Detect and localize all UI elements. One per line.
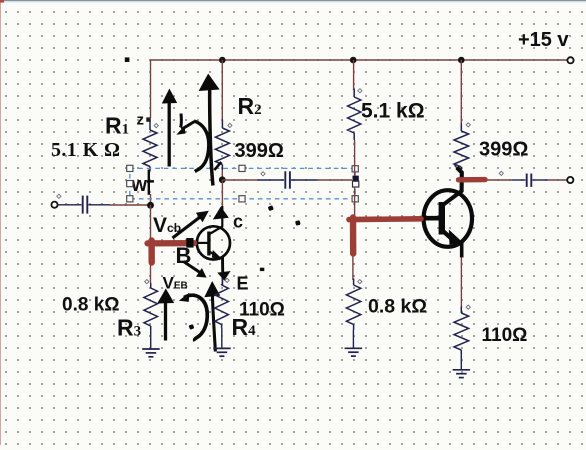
resistor R6 0.8k (353, 279, 355, 286)
ground mid (345, 347, 363, 349)
pin diamond R7 (466, 123, 470, 127)
wire collector to C3 (486, 179, 512, 181)
ground right (453, 369, 471, 371)
terminal +15V output (567, 57, 573, 63)
svg-text:+15 v: +15 v (518, 29, 569, 51)
handle bottom-mid (239, 196, 245, 202)
wire ink to R6 (352, 250, 354, 280)
transistor Q2 emitter arrowhead (449, 230, 464, 245)
resistor R1 (149, 121, 151, 130)
svg-text:0.8 kΩ: 0.8 kΩ (368, 296, 427, 318)
wire C1 to node B1 (110, 204, 148, 206)
transistor Q2 base lead (419, 216, 439, 221)
maroon ink base lead Q1 (148, 240, 195, 246)
wire R6 to ground (352, 330, 354, 348)
wire R3 to ground (150, 330, 152, 349)
pin diamond R3 (145, 280, 149, 284)
transistor Q1 emitter arrowhead (212, 250, 222, 259)
ink arrow up left (IR1) (168, 100, 171, 167)
wire rail to R2 (221, 60, 223, 120)
stray diamond left (57, 194, 61, 198)
transistor Q2 emitter (444, 232, 458, 245)
svg-text:399Ω: 399Ω (479, 139, 528, 161)
wire rail to R7 (460, 60, 462, 124)
svg-text:c: c (233, 212, 243, 232)
ink arrow to R4 top (212, 295, 215, 352)
junction top rail at right 399 column (458, 57, 465, 64)
wire C3 to terminal (548, 179, 567, 181)
pin diamond C3 (499, 171, 503, 175)
red corner mark (0, 0, 4, 3)
stray dot mid2 (295, 220, 301, 226)
wire node to collector ink (221, 180, 223, 208)
wire R8 to ground (460, 354, 462, 369)
ground R4 (213, 347, 231, 349)
capacitor C3 plates (526, 174, 528, 187)
wire C2 to mid column (317, 179, 352, 181)
junction node collector1 (219, 176, 226, 183)
handle top-left (127, 165, 133, 171)
tick above Q2 (455, 165, 458, 169)
pin diamond R6 (358, 280, 362, 284)
ink arrow Vcb diagonal (173, 216, 203, 239)
svg-text:z: z (137, 112, 145, 129)
ink curve VEB (184, 295, 207, 341)
maroon ink left column (148, 241, 154, 263)
ink wedge on emitter (217, 271, 230, 281)
stray dot mid1 (268, 205, 274, 211)
resistor R2 (221, 120, 223, 129)
transistor Q2 collector (444, 168, 462, 205)
svg-text:0.8 kΩ: 0.8 kΩ (62, 295, 120, 316)
ink arrow VEB up (164, 301, 167, 341)
wire selection to base ink (354, 187, 356, 222)
transistor Q1 emitter (210, 252, 221, 260)
svg-text:399Ω: 399Ω (235, 140, 284, 162)
wire R1 bottom to junction (150, 194, 152, 205)
resistor R5 5.1k (353, 89, 355, 98)
pin diamond R8 (466, 305, 470, 309)
black ink tick near w (147, 180, 154, 183)
pin diamond R1 (154, 124, 158, 128)
wire R4 to ground (221, 328, 223, 348)
capacitor C2 plates (284, 171, 286, 188)
capacitor C2 leads (258, 179, 284, 181)
resistor R3 (150, 283, 152, 288)
wire Q1 emitter down (221, 260, 223, 285)
resistor R8 110 (460, 307, 462, 314)
ink loop arrow (179, 114, 183, 128)
handle mid-left (127, 181, 133, 187)
terminal output (567, 177, 573, 183)
resistor R7 399 (460, 124, 462, 132)
svg-text:5.1 kΩ: 5.1 kΩ (361, 100, 425, 123)
svg-text:5.1 K Ω: 5.1 K Ω (51, 139, 120, 161)
wire node to C2 (222, 179, 258, 181)
handle top-right (352, 166, 358, 172)
ink tick near arrow base (214, 162, 221, 170)
capacitor C1 plates (82, 196, 84, 214)
transistor Q1 circle (197, 226, 230, 259)
black blob at base lead end (186, 238, 193, 248)
capacitor C3 leads (512, 179, 526, 181)
transistor Q1 collector (210, 206, 223, 234)
capacitor C1 leads (58, 204, 82, 206)
ink arrow B to E (184, 262, 201, 273)
maroon ink base lead Q2 (349, 216, 421, 222)
wire Q2 emitter to R8 (460, 257, 462, 308)
wire node down to R3 (150, 205, 152, 283)
selection dashed box (130, 168, 355, 198)
wire +15V rail (151, 60, 568, 118)
junction node left base (147, 202, 154, 209)
handle top-mid (239, 165, 245, 171)
pin diamond C2 (261, 172, 265, 176)
handle bottom-left (127, 196, 133, 202)
svg-text:E: E (237, 274, 249, 294)
window top border (0, 0, 586, 1)
ink over Q1 emitter wire (221, 256, 224, 272)
terminal input (51, 202, 57, 208)
handle bottom-right (352, 196, 358, 202)
junction top rail at 5.1k column (350, 57, 357, 64)
pin square of R1 (146, 117, 150, 121)
svg-text:110Ω: 110Ω (482, 325, 528, 346)
wire R5 to selection (354, 140, 356, 176)
stray dot top left (125, 57, 130, 62)
transistor Q2 base bar (439, 202, 445, 235)
ground R3 (142, 348, 160, 350)
transistor Q1 base bar (207, 232, 210, 256)
ink wedge on collector (213, 207, 229, 220)
maroon ink collector Q2 (459, 177, 486, 183)
ink arrow up right (IR2) (210, 89, 213, 186)
selected endpoint square (353, 176, 359, 182)
wire R2 to node C1 (221, 170, 223, 180)
black ink over R1 bottom lead (148, 170, 150, 195)
stray dot near ground (189, 324, 195, 330)
stray dot near E (260, 268, 264, 271)
maroon ink mid column (350, 218, 357, 254)
pin diamond R4 (225, 278, 229, 282)
resistor R4 (221, 284, 223, 285)
wire rail to R5 (353, 60, 355, 90)
transistor Q1 base lead (195, 242, 208, 244)
transistor Q2 emitter lead (460, 241, 464, 258)
pin diamond R2 (228, 123, 232, 127)
window left border (0, 0, 1, 445)
pin diamond R5 (358, 89, 362, 93)
junction top rail at R2 column (219, 57, 226, 64)
transistor Q2 circle (424, 190, 472, 247)
